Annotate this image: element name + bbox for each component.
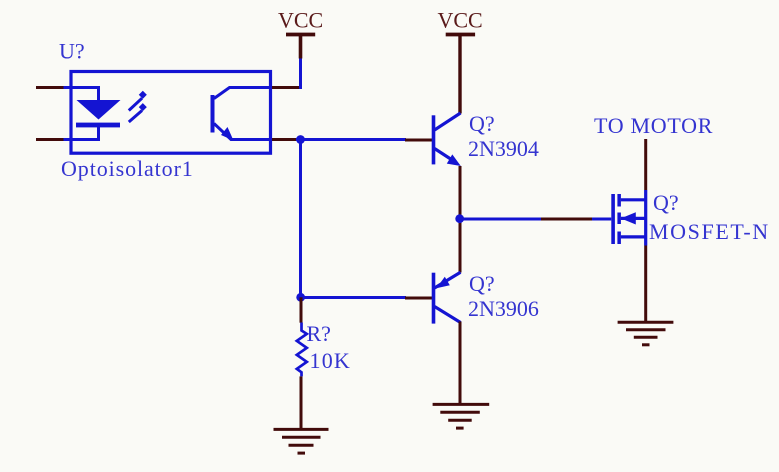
wire node A to Q1 base xyxy=(296,138,406,141)
transistor Q1 2N3904 xyxy=(405,113,461,166)
light emission arrow 2 xyxy=(129,103,147,122)
svg-text:2N3906: 2N3906 xyxy=(468,296,539,321)
transistor Q2 2N3906 xyxy=(405,272,461,323)
phototransistor inside optoisolator xyxy=(211,88,271,141)
svg-text:Optoisolator1: Optoisolator1 xyxy=(61,156,194,181)
wire node C to MOSFET gate xyxy=(460,218,541,221)
svg-text:10K: 10K xyxy=(310,348,352,373)
pin 4 (opto collector, right top) xyxy=(272,86,299,89)
MOSFET gate pin xyxy=(541,218,593,221)
pin 1 (opto anode, left top) xyxy=(36,86,64,89)
wire Q1 emitter down through node C to Q2 emitter xyxy=(459,166,462,273)
MOSFET Q? symbol xyxy=(592,190,646,246)
svg-text:VCC: VCC xyxy=(278,8,323,33)
svg-text:MOSFET-N: MOSFET-N xyxy=(649,219,770,244)
svg-text:Q?: Q? xyxy=(469,111,495,136)
junction node C xyxy=(455,214,464,223)
wire opto collector to VCC xyxy=(299,59,302,90)
junction node A xyxy=(296,135,305,144)
resistor R? top pin xyxy=(300,297,303,322)
ground (below MOSFET) xyxy=(618,322,674,345)
LED inside optoisolator xyxy=(64,88,121,140)
svg-text:R?: R? xyxy=(307,321,331,346)
ground (below Q2) xyxy=(433,404,490,428)
pin 3 (opto emitter, right bottom) xyxy=(272,138,296,141)
power port VCC (right) xyxy=(438,8,483,35)
wire MOSFET source to ground xyxy=(644,246,647,323)
svg-text:Q?: Q? xyxy=(653,190,679,215)
resistor R? xyxy=(297,323,307,377)
wire Q2 collector to ground xyxy=(459,322,462,405)
wire node A down to node B xyxy=(299,140,302,298)
light emission arrow 1 xyxy=(129,91,147,111)
svg-text:U?: U? xyxy=(59,39,85,64)
pin 2 (opto cathode, left bottom) xyxy=(36,138,64,141)
wire TO MOTOR to MOSFET drain xyxy=(644,139,647,190)
svg-text:VCC: VCC xyxy=(438,8,483,33)
svg-text:TO MOTOR: TO MOTOR xyxy=(594,113,713,138)
optoisolator U? box xyxy=(71,72,271,154)
wire node B to Q2 base xyxy=(301,296,407,299)
svg-text:2N3904: 2N3904 xyxy=(468,136,539,161)
ground (below R?) xyxy=(274,429,329,453)
resistor R? bottom pin xyxy=(300,376,303,429)
wire VCC to Q1 collector xyxy=(458,35,461,114)
svg-text:Q?: Q? xyxy=(469,271,495,296)
junction node B xyxy=(296,293,305,302)
power port VCC (left) xyxy=(278,8,323,59)
